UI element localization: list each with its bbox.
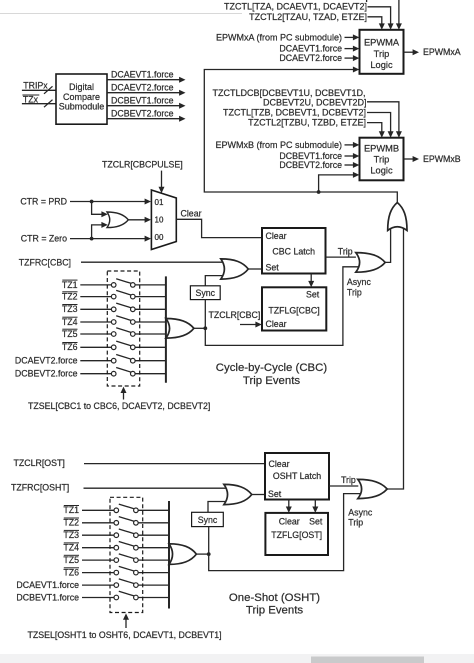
switch TZ4 (OSHT) <box>63 542 168 553</box>
node trip junction <box>317 190 321 194</box>
node OSHT section title <box>229 592 320 617</box>
wire TZFRC[CBC] <box>19 257 224 267</box>
svg-text:Trip: Trip <box>341 475 356 485</box>
switch TZ2 (CBC) <box>62 290 165 301</box>
svg-text:TZ2: TZ2 <box>63 518 79 528</box>
svg-text:TZCTL[TZB, DCBEVT1, DCBEVT2]: TZCTL[TZB, DCBEVT1, DCBEVT2] <box>223 108 366 118</box>
wire TZCTL2[TZBU,TZBD,ETZE] control to EPWMB <box>248 117 385 137</box>
svg-text:EPWMB: EPWMB <box>364 144 399 154</box>
wire OSHT latch to flag clear arrow <box>286 500 292 513</box>
svg-text:CTR = PRD: CTR = PRD <box>20 196 67 206</box>
svg-text:TZ5: TZ5 <box>62 329 78 339</box>
wire trip signal to EPWMA <box>204 67 397 204</box>
or-gate CBC set <box>221 259 249 279</box>
svg-text:Set: Set <box>309 517 323 527</box>
wire CBC async path to or-gate <box>205 267 359 346</box>
block OSHT Latch <box>265 453 329 500</box>
or-gate OSHT trip combine 8-input <box>169 501 196 609</box>
svg-text:OSHT Latch: OSHT Latch <box>273 471 321 481</box>
wire DCBEVT1.force to EPWMB <box>279 151 359 161</box>
block EPWMB Trip Logic <box>360 138 404 181</box>
svg-text:TZCLR[CBCPULSE]: TZCLR[CBCPULSE] <box>102 160 183 170</box>
or-gate OSHT set <box>224 484 252 504</box>
svg-text:TZ6: TZ6 <box>63 568 79 578</box>
svg-text:TZ3: TZ3 <box>62 304 78 314</box>
wire or-gate to mux input 10 <box>128 217 151 223</box>
svg-text:TZCLR[OST]: TZCLR[OST] <box>14 458 65 468</box>
switch DCAEVT2.force (CBC) <box>15 355 165 366</box>
svg-text:One-Shot (OSHT): One-Shot (OSHT) <box>229 592 320 604</box>
wire TZCTLDCA control from top to EPWMA <box>396 0 402 30</box>
svg-text:TRIPx: TRIPx <box>23 80 48 90</box>
svg-text:Sync: Sync <box>198 515 218 525</box>
switch TZ6 (CBC) <box>62 341 165 352</box>
node CTR PRD junction <box>90 200 94 204</box>
wire DCAEVT2.force to EPWMA <box>279 53 359 63</box>
wire OSHT async path to or-gate <box>209 494 362 571</box>
svg-text:TZ4: TZ4 <box>63 543 79 553</box>
wire DCAEVT2.force output <box>107 82 186 95</box>
wire cropped bracket stub at top <box>366 0 368 2</box>
svg-text:TZSEL[OSHT1 to OSHT6, DCAEVT1,: TZSEL[OSHT1 to OSHT6, DCAEVT1, DCBEVT1] <box>28 630 222 640</box>
block TZFLG[CBC] <box>262 287 326 330</box>
wire TZCLR[OST] <box>14 458 265 468</box>
svg-text:DCBEVT2.force: DCBEVT2.force <box>279 160 342 170</box>
or-gate trip combine <box>388 203 407 231</box>
svg-text:TZx: TZx <box>23 94 39 104</box>
wire CTR = PRD <box>20 196 151 206</box>
svg-text:DCAEVT2.force: DCAEVT2.force <box>15 356 78 366</box>
wire TZFRC[OSHT] <box>11 482 227 492</box>
switch TZ5 (CBC) <box>62 328 165 339</box>
wire CTR PRD to or-gate <box>92 202 108 218</box>
svg-text:TZFRC[CBC]: TZFRC[CBC] <box>19 257 71 267</box>
svg-text:Compare: Compare <box>63 92 100 102</box>
svg-text:Trip: Trip <box>338 246 353 256</box>
wire TZCTL2[TZAU,TZAD,ETZE] control to EPWMA <box>249 12 385 30</box>
svg-text:TZCTL2[TZBU, TZBD, ETZE]: TZCTL2[TZBU, TZBD, ETZE] <box>248 117 366 127</box>
svg-text:Set: Set <box>268 489 282 499</box>
node CTR Zero junction <box>90 237 94 241</box>
wire TZCLR[CBCPULSE] to mux select <box>102 160 183 194</box>
switch TZ1 (OSHT) <box>63 504 168 515</box>
block TZFLG[OST] <box>265 513 328 555</box>
or-gate CTR PRD or Zero <box>107 212 128 228</box>
svg-text:DCBEVT1.force: DCBEVT1.force <box>111 95 174 105</box>
wire DCBEVT1.force output <box>107 95 186 108</box>
wire EPWMxB from PC submodule <box>215 140 359 150</box>
svg-text:Set: Set <box>306 289 320 299</box>
svg-text:DCAEVT1.force: DCAEVT1.force <box>111 69 174 79</box>
svg-text:DCBEVT2U, DCBEVT2D]: DCBEVT2U, DCBEVT2D] <box>263 97 367 107</box>
svg-text:Digital: Digital <box>69 82 94 92</box>
wire OSHT latch trip output <box>329 475 358 486</box>
or-gate OSHT async trip <box>358 479 387 498</box>
wire TZCLR[CBC] to flag clear <box>209 310 262 327</box>
wire DCAEVT1.force output <box>107 69 186 82</box>
switch TZ2 (OSHT) <box>63 517 168 528</box>
svg-text:DCBEVT2.force: DCBEVT2.force <box>15 369 78 379</box>
wire sync to CBC set or-gate <box>205 276 224 286</box>
wire CTR Zero to or-gate <box>92 222 108 239</box>
block EPWMA Trip Logic <box>360 30 404 74</box>
svg-text:Clear: Clear <box>266 231 287 241</box>
svg-text:EPWMxB (from PC submodule): EPWMxB (from PC submodule) <box>215 140 342 150</box>
svg-text:TZCTL[TZA, DCAEVT1, DCAEVT2]: TZCTL[TZA, DCAEVT1, DCAEVT2] <box>224 2 367 12</box>
svg-text:TZ5: TZ5 <box>63 555 79 565</box>
node async trip label OSHT <box>348 508 373 528</box>
switch TZ5 (OSHT) <box>63 554 168 565</box>
switch TZ4 (CBC) <box>62 316 165 327</box>
wire TZSEL[OSHT] select control <box>28 613 222 639</box>
svg-text:Clear: Clear <box>279 516 300 526</box>
wire sync to OSHT set or-gate <box>208 502 228 513</box>
svg-text:EPWMA: EPWMA <box>364 38 400 48</box>
svg-text:TZCLR[CBC]: TZCLR[CBC] <box>209 310 261 320</box>
svg-text:TZSEL[CBC1 to CBC6, DCAEVT2, D: TZSEL[CBC1 to CBC6, DCAEVT2, DCBEVT2] <box>28 401 210 411</box>
svg-text:Trip: Trip <box>348 518 363 528</box>
svg-text:Set: Set <box>266 263 280 273</box>
wire TZSEL[CBC] select control <box>28 387 210 411</box>
svg-text:TZ4: TZ4 <box>62 317 78 327</box>
wire CBC set or-gate to latch <box>248 268 261 270</box>
wire OSHT or-gate output <box>196 553 208 555</box>
svg-text:Logic: Logic <box>370 166 393 176</box>
svg-text:Submodule: Submodule <box>59 102 105 112</box>
svg-text:DCBEVT2.force: DCBEVT2.force <box>111 108 174 118</box>
svg-text:TZ1: TZ1 <box>63 505 79 515</box>
switch DCBEVT1.force (OSHT) <box>16 591 168 602</box>
svg-text:Cycle-by-Cycle (CBC): Cycle-by-Cycle (CBC) <box>216 362 328 374</box>
wire CBC latch to TZFLG set <box>308 274 314 288</box>
wire OSHT async trip to combine or-gate <box>387 227 403 489</box>
wire TZCTLDCB control to EPWMB <box>212 88 401 138</box>
wire DCBEVT2.force to EPWMB <box>279 160 359 170</box>
svg-text:Trip: Trip <box>374 49 390 59</box>
switch DCBEVT2.force (CBC) <box>15 368 165 379</box>
svg-text:TZ3: TZ3 <box>63 530 79 540</box>
wire OSHT junction to sync <box>208 527 210 555</box>
svg-text:Trip: Trip <box>374 155 390 165</box>
wire TZCTL[TZA,DCAEVT1,DCAEVT2] control to EPWMA <box>224 2 394 30</box>
block TZSEL CBC select (dashed) <box>107 271 139 386</box>
block Sync CBC <box>190 286 220 300</box>
svg-text:00: 00 <box>155 233 164 242</box>
svg-text:DCAEVT2.force: DCAEVT2.force <box>279 53 342 63</box>
switch DCAEVT1.force (OSHT) <box>16 579 168 590</box>
wire EPWMxA from PC submodule <box>216 32 359 42</box>
svg-text:Async: Async <box>348 508 373 518</box>
node async trip label CBC <box>347 277 372 297</box>
svg-text:Clear: Clear <box>266 319 287 329</box>
wire CTR = Zero <box>21 233 151 243</box>
svg-text:Trip: Trip <box>347 287 362 297</box>
svg-text:DCAEVT1.force: DCAEVT1.force <box>16 580 79 590</box>
switch TZ6 (OSHT) <box>63 566 168 577</box>
svg-text:TZ2: TZ2 <box>62 292 78 302</box>
svg-text:EPWMxA (from PC submodule): EPWMxA (from PC submodule) <box>216 32 342 42</box>
wire OSHT latch to flag set arrow <box>312 500 318 513</box>
wire TZx input bus <box>22 94 56 107</box>
block TZSEL OSHT select (dashed) <box>110 497 143 612</box>
wire TZCTL[TZB,DCBEVT1,DCBEVT2] control to EPWMB <box>223 108 394 138</box>
switch TZ3 (CBC) <box>62 303 165 314</box>
svg-text:DCAEVT1.force: DCAEVT1.force <box>279 44 342 54</box>
svg-text:01: 01 <box>155 198 164 207</box>
wire EPWMxB output <box>404 154 461 164</box>
svg-text:EPWMxB: EPWMxB <box>423 154 461 164</box>
or-gate CBC trip combine 8-input <box>166 276 194 382</box>
block Digital Compare Submodule <box>56 74 107 124</box>
svg-text:TZCTLDCB[DCBEVT1U, DCBEVT1D,: TZCTLDCB[DCBEVT1U, DCBEVT1D, <box>212 88 365 98</box>
wire CBC or-gate output <box>194 327 205 329</box>
wire OSHT set or-gate to latch <box>252 494 265 496</box>
svg-text:Trip Events: Trip Events <box>246 604 303 616</box>
node CBC or-gate output junction <box>203 326 207 330</box>
svg-text:TZ6: TZ6 <box>62 342 78 352</box>
bottom scrollbar thumb <box>311 657 424 663</box>
block CBC Latch <box>262 228 326 274</box>
wire DCAEVT1.force to EPWMA <box>279 44 359 54</box>
wire DCBEVT2.force output <box>107 108 186 121</box>
switch TZ3 (OSHT) <box>63 529 168 540</box>
top window border line <box>0 13 242 15</box>
or-gate CBC async trip <box>356 253 385 273</box>
svg-text:TZFLG[OST]: TZFLG[OST] <box>271 530 322 540</box>
wire CBC async trip to combine or-gate <box>385 227 390 262</box>
svg-text:10: 10 <box>155 215 164 224</box>
svg-text:DCBEVT1.force: DCBEVT1.force <box>16 592 79 602</box>
node OSHT or-gate output junction <box>207 552 211 556</box>
svg-text:Async: Async <box>347 277 372 287</box>
wire TRIPx input bus <box>22 80 56 94</box>
svg-text:DCAEVT2.force: DCAEVT2.force <box>111 82 174 92</box>
svg-text:CTR = Zero: CTR = Zero <box>21 233 67 243</box>
svg-text:TZFLG[CBC]: TZFLG[CBC] <box>268 305 319 315</box>
svg-text:TZ1: TZ1 <box>62 280 78 290</box>
svg-text:EPWMxA: EPWMxA <box>423 47 461 57</box>
svg-text:TZFRC[OSHT]: TZFRC[OSHT] <box>11 482 69 492</box>
svg-text:Clear: Clear <box>269 459 290 469</box>
node CBC section title <box>216 362 328 387</box>
wire trip signal branch to EPWMB <box>319 172 360 192</box>
svg-text:Trip Events: Trip Events <box>243 375 300 387</box>
svg-text:CBC Latch: CBC Latch <box>272 247 315 257</box>
svg-text:TZCTL2[TZAU, TZAD, ETZE]: TZCTL2[TZAU, TZAD, ETZE] <box>249 12 367 22</box>
svg-text:Sync: Sync <box>196 288 216 298</box>
svg-text:Logic: Logic <box>370 60 393 70</box>
bottom scrollbar track <box>0 654 474 663</box>
wire EPWMxA output <box>404 47 461 57</box>
block Sync OSHT <box>192 512 224 526</box>
mux CBC clear pulse select <box>151 190 176 250</box>
wire mux clear output to CBC latch <box>176 208 261 237</box>
svg-text:Clear: Clear <box>181 208 202 218</box>
wire CBC latch trip output <box>326 246 356 257</box>
wire CBC junction to sync <box>204 300 206 329</box>
switch TZ1 (CBC) <box>62 279 165 290</box>
